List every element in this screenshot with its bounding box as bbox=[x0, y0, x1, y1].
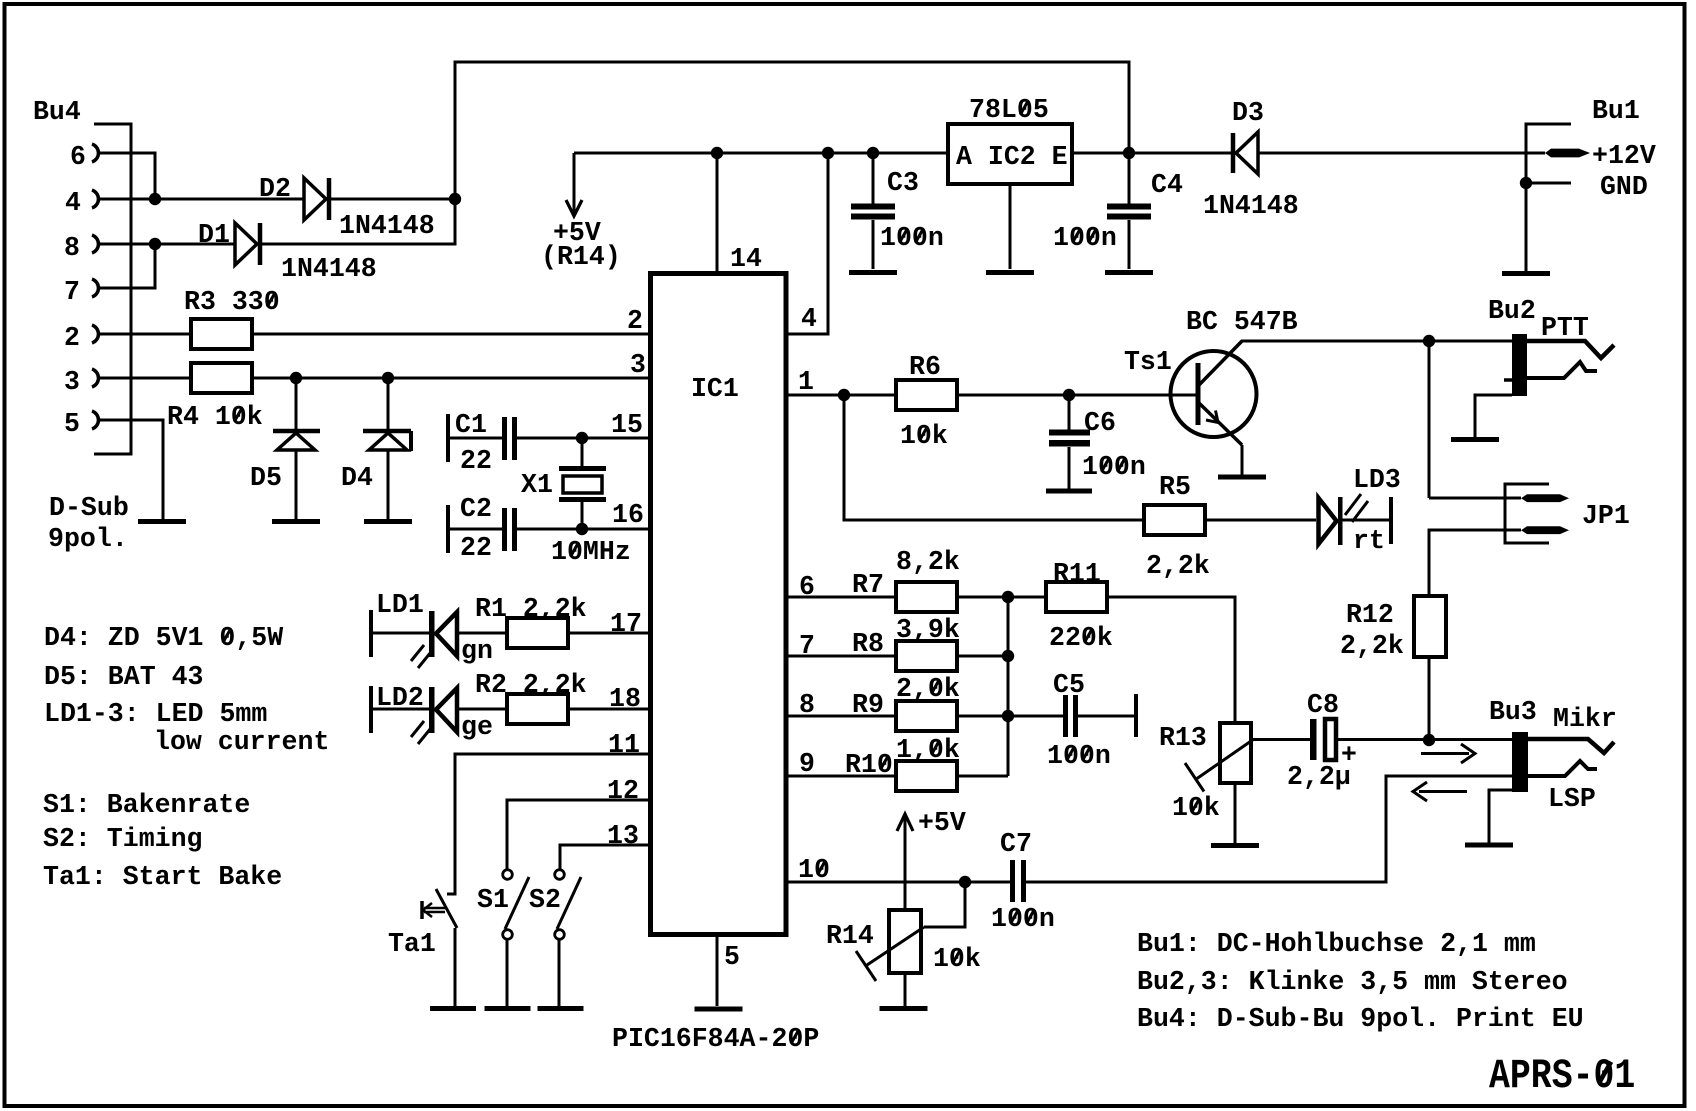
svg-text:D3: D3 bbox=[1232, 98, 1264, 129]
note S2: Timing bbox=[43, 824, 203, 855]
label gn bbox=[461, 636, 493, 667]
IC1 pin label 14 bbox=[730, 244, 762, 275]
wire R14 to ground bbox=[904, 973, 907, 1006]
svg-text:X1: X1 bbox=[521, 470, 553, 501]
jumper JP1 pin2 bbox=[1521, 526, 1569, 534]
Bu2 ring contact bbox=[1527, 362, 1597, 378]
Bu3 ring contact bbox=[1528, 761, 1597, 776]
IC1 pin label 1 bbox=[798, 367, 814, 398]
label (R14) bbox=[541, 242, 621, 273]
wire LD3 to terminal bbox=[1342, 519, 1390, 522]
svg-text:(R14): (R14) bbox=[541, 242, 621, 273]
resistor R2 bbox=[507, 694, 568, 724]
potentiometer R13 bbox=[1185, 723, 1254, 792]
svg-text:ge: ge bbox=[461, 712, 493, 743]
Bu3 sleeve to ground bbox=[1489, 790, 1520, 843]
+5V arrow marker R14 bbox=[897, 814, 913, 910]
resistor R8 bbox=[896, 641, 957, 671]
svg-text:Bu2,3: Klinke 3,5 mm Stereo: Bu2,3: Klinke 3,5 mm Stereo bbox=[1137, 967, 1568, 998]
connector Bu1 label bbox=[1592, 96, 1640, 127]
wire LD2 to R2 bbox=[457, 708, 507, 711]
svg-text:LD3: LD3 bbox=[1353, 465, 1401, 496]
junction pin1 node bbox=[838, 389, 850, 401]
label +5V bbox=[553, 218, 601, 249]
resistor R10 label bbox=[845, 750, 893, 781]
label R9 2,0k bbox=[896, 674, 960, 705]
label 9pol. bbox=[48, 524, 128, 555]
svg-text:D4: D4 bbox=[341, 463, 373, 494]
label 10MHz bbox=[551, 537, 631, 568]
svg-text:R8: R8 bbox=[852, 629, 884, 660]
wire R10 to bus bbox=[957, 775, 1008, 778]
label R7 8,2k bbox=[896, 547, 960, 578]
label R13 10k bbox=[1172, 793, 1220, 824]
label R5 2,2k bbox=[1146, 551, 1210, 582]
capacitor C4 label bbox=[1151, 170, 1183, 201]
capacitor C4 wires bbox=[1128, 153, 1131, 269]
junction bus row7 bbox=[1002, 650, 1014, 662]
wire LD1 left bbox=[373, 632, 429, 635]
jumper JP1 wire pin2 to R12 bbox=[1429, 530, 1521, 596]
Bu1 +12V pin bbox=[1545, 149, 1590, 158]
crystal X1 bbox=[559, 438, 606, 529]
junction Bu1 GND bbox=[1520, 177, 1532, 189]
wire IC1 pin11 to Ta1 bbox=[447, 754, 650, 894]
svg-text:JP1: JP1 bbox=[1582, 501, 1630, 532]
transistor Q1 collector bbox=[1199, 341, 1512, 385]
LED LD1 bbox=[411, 611, 457, 668]
label C8 2,2u bbox=[1287, 762, 1351, 793]
note D5: BAT 43 bbox=[44, 662, 204, 693]
svg-text:2,2µ: 2,2µ bbox=[1287, 762, 1351, 793]
diode D1 bbox=[235, 223, 260, 265]
svg-text:Bu4: Bu4 bbox=[33, 97, 81, 128]
capacitor C2 bbox=[502, 508, 517, 551]
wire IC1 pin12 to S1 bbox=[507, 800, 650, 869]
label C4 100n bbox=[1053, 223, 1117, 254]
IC1 pin label 6 bbox=[799, 572, 815, 603]
ground S2 bbox=[538, 1006, 584, 1011]
svg-text:10k: 10k bbox=[933, 944, 981, 975]
wire C1 left bbox=[450, 437, 502, 440]
junction C3 bbox=[867, 147, 879, 159]
svg-text:R10: R10 bbox=[845, 750, 893, 781]
junction X1 bottom bbox=[576, 523, 588, 535]
svg-text:S2: Timing: S2: Timing bbox=[43, 824, 203, 855]
junction pin8/pin7 bbox=[149, 238, 161, 250]
svg-text:C8: C8 bbox=[1307, 690, 1339, 721]
wire R11 to R13 bbox=[1107, 597, 1235, 723]
resistor R3 label bbox=[184, 287, 280, 318]
label D2 1N4148 bbox=[339, 211, 435, 242]
ground Bu2 bbox=[1451, 437, 1499, 442]
svg-text:D-Sub: D-Sub bbox=[49, 493, 129, 524]
IC1 pin label 5 bbox=[724, 942, 740, 973]
label R8 3,9k bbox=[896, 615, 960, 646]
wire R3 to IC1 pin2 bbox=[252, 333, 650, 336]
potentiometer R13 label bbox=[1159, 723, 1207, 754]
wire +5V rail bbox=[574, 152, 948, 155]
resistor R11 label bbox=[1053, 559, 1101, 590]
resistor R7 label bbox=[852, 570, 884, 601]
capacitor C2 label bbox=[460, 494, 492, 525]
label D3 1N4148 bbox=[1203, 191, 1299, 222]
IC1 pin label 11 (left) bbox=[608, 730, 640, 761]
capacitor C4 bbox=[1107, 204, 1151, 220]
note D4: ZD 5V1 0,5W bbox=[44, 623, 284, 654]
wire Bu4 pin2 to R3 bbox=[100, 333, 191, 336]
zener diode D4 bbox=[363, 378, 411, 519]
transistor Q1 (Ts1) body bbox=[1171, 351, 1257, 437]
svg-text:100n: 100n bbox=[1082, 452, 1146, 483]
wire IC1 pin7 to R8 bbox=[786, 655, 896, 658]
label Ta1 bbox=[388, 929, 436, 960]
junction C6 node bbox=[1063, 389, 1075, 401]
IC1 pin label 3 (left) bbox=[630, 350, 646, 381]
LD2 terminal bar bbox=[369, 686, 373, 733]
transistor Q1 emitter bbox=[1199, 403, 1242, 475]
wire LD1 to R1 bbox=[457, 632, 507, 635]
wire IC1 pin4 bbox=[786, 153, 828, 334]
svg-text:8: 8 bbox=[64, 233, 80, 264]
svg-text:1: 1 bbox=[798, 367, 814, 398]
LED LD2 bbox=[411, 687, 457, 744]
LED LD2 label bbox=[376, 683, 424, 714]
resistor R9 label bbox=[852, 690, 884, 721]
connector Bu2 jack body bbox=[1512, 334, 1527, 396]
svg-text:3: 3 bbox=[64, 367, 80, 398]
resistor R1 bbox=[507, 618, 568, 648]
IC1 pin label 13 (left) bbox=[607, 821, 639, 852]
voltage regulator IC2 78L05 box bbox=[948, 124, 1072, 184]
svg-text:16: 16 bbox=[612, 500, 644, 531]
label S1 bbox=[477, 885, 509, 916]
IC1 pin label 9 bbox=[799, 749, 815, 780]
svg-text:R7: R7 bbox=[852, 570, 884, 601]
wire pin1 node down to R5 bbox=[844, 395, 1144, 520]
label C1 value 22 bbox=[460, 446, 492, 477]
wire C8 to Bu3 tip bbox=[1337, 738, 1512, 741]
wire IC2 ground pin bbox=[1009, 184, 1012, 269]
label C3 100n bbox=[880, 223, 944, 254]
resistor R4 bbox=[191, 363, 252, 393]
switch S1 lever bbox=[505, 877, 529, 929]
label R6 10k bbox=[900, 421, 948, 452]
label C8 plus bbox=[1341, 740, 1357, 771]
junction C8/R12/Bu3 node bbox=[1423, 734, 1435, 746]
note Bu1: DC-Hohlbuchse 2,1 mm bbox=[1137, 929, 1536, 960]
svg-text:S1: S1 bbox=[477, 885, 509, 916]
wire Bu4 pin7 to pin8 node bbox=[100, 244, 155, 288]
svg-text:C5: C5 bbox=[1053, 670, 1085, 701]
crystal X1 label bbox=[521, 470, 553, 501]
arrow right (signal to Mikr) bbox=[1421, 744, 1475, 763]
svg-text:BC 547B: BC 547B bbox=[1186, 307, 1298, 338]
svg-text:17: 17 bbox=[610, 609, 642, 640]
resistor R5 label bbox=[1159, 472, 1191, 503]
label C2 value 22 bbox=[460, 533, 492, 564]
wire Ta1 to ground bbox=[454, 928, 457, 1006]
wire IC1 pin10 row bbox=[786, 881, 1010, 884]
svg-text:R14: R14 bbox=[826, 921, 874, 952]
svg-text:Bu2: Bu2 bbox=[1488, 296, 1536, 327]
wire R13 wiper to C8 bbox=[1251, 738, 1311, 741]
note low current bbox=[154, 727, 329, 758]
svg-text:R4 10k: R4 10k bbox=[167, 402, 263, 433]
wire C2 left bbox=[450, 528, 502, 531]
LD3 terminal bar bbox=[1389, 497, 1393, 544]
junction IC2 input node bbox=[1123, 147, 1135, 159]
label C7 100n bbox=[991, 904, 1055, 935]
capacitor C1 label bbox=[455, 410, 487, 441]
svg-text:+12V: +12V bbox=[1592, 141, 1656, 172]
capacitor C7 bbox=[1010, 860, 1026, 902]
wire S2 to ground bbox=[558, 940, 561, 1006]
capacitor C3 label bbox=[887, 168, 919, 199]
svg-text:4: 4 bbox=[65, 188, 81, 219]
wire resistor bus vertical bbox=[1007, 597, 1010, 776]
diode D5 bbox=[273, 378, 320, 519]
label 78L05 bbox=[969, 95, 1049, 126]
svg-text:10k: 10k bbox=[900, 421, 948, 452]
ground R14 bbox=[880, 1006, 928, 1011]
resistor R9 bbox=[896, 701, 957, 731]
capacitor C3 wires bbox=[872, 153, 875, 269]
ground Ta1 bbox=[430, 1006, 476, 1011]
junction bus row6 bbox=[1002, 591, 1014, 603]
LED LD3 label bbox=[1353, 465, 1401, 496]
svg-text:C1: C1 bbox=[455, 410, 487, 441]
LD1 terminal bar bbox=[369, 610, 373, 657]
wire IC1 pin14 bbox=[716, 153, 719, 271]
svg-text:PIC16F84A-20P: PIC16F84A-20P bbox=[612, 1024, 819, 1055]
wire IC1 pin6 to R7 bbox=[786, 596, 896, 599]
svg-text:10k: 10k bbox=[1172, 793, 1220, 824]
capacitor C8 label bbox=[1307, 690, 1339, 721]
capacitor C2 terminal bar bbox=[446, 505, 450, 553]
wire IC1 pin8 to R9 bbox=[786, 715, 896, 718]
wire C2 to IC1 pin16 bbox=[517, 528, 650, 531]
wire Bu4 pin3 to R4 bbox=[100, 377, 191, 380]
svg-text:LSP: LSP bbox=[1548, 784, 1596, 815]
svg-text:low current: low current bbox=[154, 727, 329, 758]
pushbutton Ta1 actuator bbox=[422, 901, 445, 919]
label R14 10k bbox=[933, 944, 981, 975]
junction bus row8 bbox=[1002, 710, 1014, 722]
IC1 pin label 16 (left) bbox=[612, 500, 644, 531]
junction node A (D2/D1/top rail) bbox=[449, 193, 461, 205]
svg-text:R5: R5 bbox=[1159, 472, 1191, 503]
resistor R5 bbox=[1144, 505, 1205, 535]
Bu3 tip contact bbox=[1528, 739, 1614, 753]
svg-text:22: 22 bbox=[460, 533, 492, 564]
resistor R6 label bbox=[909, 352, 941, 383]
svg-text:R9: R9 bbox=[852, 690, 884, 721]
switch S2 contacts bbox=[555, 870, 565, 940]
C5 terminal bar bbox=[1134, 694, 1138, 737]
diode D3 label bbox=[1232, 98, 1264, 129]
svg-text:1N4148: 1N4148 bbox=[281, 254, 377, 285]
jumper JP1 pin1 bbox=[1521, 494, 1569, 502]
svg-text:5: 5 bbox=[724, 942, 740, 973]
svg-text:C7: C7 bbox=[1000, 829, 1032, 860]
label D-Sub bbox=[49, 493, 129, 524]
svg-text:Bu3: Bu3 bbox=[1489, 697, 1537, 728]
svg-text:3: 3 bbox=[630, 350, 646, 381]
svg-text:+5V: +5V bbox=[918, 808, 966, 839]
arrow left (signal from LSP) bbox=[1413, 782, 1467, 801]
wire IC1 pin13 to S2 bbox=[560, 845, 650, 869]
svg-text:Ta1: Ta1 bbox=[388, 929, 436, 960]
svg-text:78L05: 78L05 bbox=[969, 95, 1049, 126]
connector Bu3 jack body bbox=[1512, 732, 1528, 792]
svg-text:Bu4: D-Sub-Bu 9pol. Print EU: Bu4: D-Sub-Bu 9pol. Print EU bbox=[1137, 1004, 1584, 1035]
wire LD2 left bbox=[373, 708, 429, 711]
IC U1 PIC16F84A box (IC1) bbox=[651, 274, 787, 935]
junction pin4 rail bbox=[822, 147, 834, 159]
wire R12 to C8 node bbox=[1428, 657, 1431, 740]
switch S2 lever bbox=[557, 877, 581, 929]
ground IC1 pin5 bbox=[695, 1007, 743, 1012]
label R12 2,2k bbox=[1340, 631, 1404, 662]
diode D2 label bbox=[259, 174, 291, 205]
svg-text:7: 7 bbox=[64, 277, 80, 308]
note S1: Bakenrate bbox=[43, 790, 250, 821]
label ge bbox=[461, 712, 493, 743]
wire IC1 pin1 to R6 bbox=[786, 394, 896, 397]
svg-text:100n: 100n bbox=[880, 223, 944, 254]
Bu2 tip contact bbox=[1527, 341, 1614, 358]
wire R2 to IC1 pin18 bbox=[568, 708, 650, 711]
junction collector node bbox=[1423, 335, 1435, 347]
label D4 bbox=[341, 463, 373, 494]
wire Bu4 pin6 to pin4 node bbox=[100, 153, 155, 199]
label S2 bbox=[529, 885, 561, 916]
ground C6 bbox=[1046, 489, 1092, 494]
wire IC2 input to node bbox=[1072, 152, 1231, 155]
label D5 bbox=[250, 463, 282, 494]
wire Bu4 pin4 row bbox=[100, 198, 304, 201]
LED LD3 bbox=[1319, 494, 1369, 545]
Bu2 left tab bbox=[1504, 378, 1512, 382]
IC1 pin label 7 bbox=[799, 631, 815, 662]
ground Bu3 bbox=[1465, 843, 1513, 848]
svg-text:1N4148: 1N4148 bbox=[1203, 191, 1299, 222]
svg-text:D2: D2 bbox=[259, 174, 291, 205]
wire R5 to LD3 bbox=[1205, 519, 1316, 522]
capacitor C1 bbox=[502, 417, 517, 460]
transistor Q1 label Ts1 bbox=[1124, 347, 1172, 378]
ground Bu1 bbox=[1502, 271, 1550, 276]
label +5V (R14) bbox=[918, 808, 966, 839]
wire R8 to bus bbox=[957, 655, 1008, 658]
svg-text:C3: C3 bbox=[887, 168, 919, 199]
+5V arrow marker bbox=[566, 153, 582, 216]
connector Bu4 label bbox=[33, 97, 81, 128]
capacitor C1 terminal bar bbox=[446, 414, 450, 462]
wire R1 to IC1 pin17 bbox=[568, 632, 650, 635]
wire C5 right bbox=[1078, 715, 1134, 718]
svg-text:D4: ZD 5V1 0,5W: D4: ZD 5V1 0,5W bbox=[44, 623, 284, 654]
capacitor C7 label bbox=[1000, 829, 1032, 860]
svg-text:11: 11 bbox=[608, 730, 640, 761]
svg-text:15: 15 bbox=[611, 410, 643, 441]
capacitor C5 bbox=[1063, 695, 1078, 737]
label R10 1,0k bbox=[896, 735, 960, 766]
svg-text:220k: 220k bbox=[1049, 623, 1113, 654]
wire S1 to ground bbox=[506, 940, 509, 1006]
wire R13 to ground bbox=[1234, 783, 1237, 844]
note Bu4: D-Sub-Bu 9pol. Print EU bbox=[1137, 1004, 1584, 1035]
wire D2 cathode to node bbox=[331, 198, 455, 201]
junction D4 on pin3 row bbox=[382, 372, 394, 384]
ground R13 bbox=[1211, 843, 1259, 848]
wire C7 to Bu3 ring bbox=[1026, 776, 1512, 882]
resistor R10 bbox=[896, 761, 957, 791]
svg-text:LD1-3: LED 5mm: LD1-3: LED 5mm bbox=[44, 699, 267, 730]
Bu2 sleeve to ground bbox=[1475, 395, 1512, 437]
wire IC1 pin5 to ground bbox=[716, 934, 719, 1006]
junction R14 wiper node bbox=[959, 876, 971, 888]
resistor R12 bbox=[1414, 596, 1446, 657]
potentiometer R14 label bbox=[826, 921, 874, 952]
diode D3 bbox=[1233, 132, 1258, 174]
capacitor C5 label bbox=[1053, 670, 1085, 701]
svg-text:Ta1: Start Bake: Ta1: Start Bake bbox=[43, 862, 282, 893]
note LD1-3: LED 5mm bbox=[44, 699, 267, 730]
title APRS-01 bbox=[1489, 1052, 1635, 1100]
wire R9 to C5 bbox=[957, 715, 1063, 718]
IC1 pin label 15 (left) bbox=[611, 410, 643, 441]
IC1 pin label 10 bbox=[798, 855, 830, 886]
svg-text:100n: 100n bbox=[991, 904, 1055, 935]
note Ta1: Start Bake bbox=[43, 862, 282, 893]
resistor R1 label bbox=[475, 594, 587, 625]
capacitor C6 bbox=[1049, 430, 1090, 447]
IC1 pin label 2 (left) bbox=[627, 306, 643, 337]
svg-text:9pol.: 9pol. bbox=[48, 524, 128, 555]
label JP1 bbox=[1582, 501, 1630, 532]
label BC 547B bbox=[1186, 307, 1298, 338]
svg-text:R13: R13 bbox=[1159, 723, 1207, 754]
ground S1 bbox=[485, 1006, 531, 1011]
svg-text:2,2k: 2,2k bbox=[1146, 551, 1210, 582]
svg-text:A IC2 E: A IC2 E bbox=[956, 142, 1068, 173]
ground D5 bbox=[272, 519, 320, 524]
label A IC2 E bbox=[956, 142, 1068, 173]
svg-text:Mikr: Mikr bbox=[1553, 704, 1617, 735]
wire Bu4 pin8 row bbox=[100, 243, 235, 246]
connector Bu2 label bbox=[1488, 296, 1536, 327]
IC1 pin label 17 (left) bbox=[610, 609, 642, 640]
label GND bbox=[1600, 172, 1648, 203]
svg-text:S1: Bakenrate: S1: Bakenrate bbox=[43, 790, 250, 821]
svg-text:1N4148: 1N4148 bbox=[339, 211, 435, 242]
svg-text:8,2k: 8,2k bbox=[896, 547, 960, 578]
svg-text:Ts1: Ts1 bbox=[1124, 347, 1172, 378]
label +12V bbox=[1592, 141, 1656, 172]
capacitor C6 wires bbox=[1068, 395, 1071, 489]
IC1 pin label 18 (left) bbox=[609, 684, 641, 715]
svg-text:D5: D5 bbox=[250, 463, 282, 494]
svg-text:10MHz: 10MHz bbox=[551, 537, 631, 568]
resistor R11 bbox=[1046, 582, 1107, 612]
svg-text:6: 6 bbox=[70, 142, 86, 173]
label LSP bbox=[1548, 784, 1596, 815]
Bu4 pin 5 contact bbox=[64, 409, 98, 440]
svg-text:APRS-01: APRS-01 bbox=[1489, 1052, 1635, 1100]
svg-text:Bu1: Bu1 bbox=[1592, 96, 1640, 127]
